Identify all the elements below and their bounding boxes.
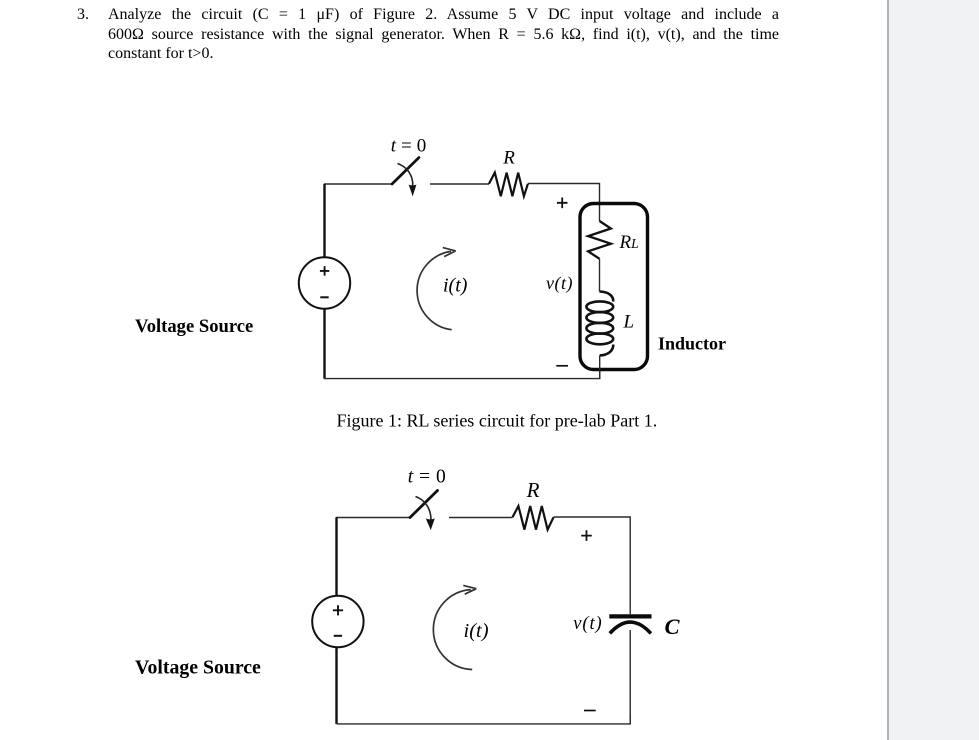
polarity minus label (fig1): [556, 365, 568, 367]
svg-text:Voltage Source: Voltage Source: [135, 316, 253, 337]
wire RL to coil: [599, 259, 601, 292]
paragraph item number: [77, 5, 89, 25]
caption Figure 1: [337, 410, 658, 430]
voltage source V1: [299, 257, 350, 308]
wire left vertical lower (fig2): [335, 647, 337, 724]
label Voltage Source (fig1): [135, 316, 253, 337]
label R (fig1): [502, 148, 515, 169]
label RL: [619, 232, 639, 253]
paragraph text: [108, 5, 779, 64]
switch S2 closing arc: [416, 497, 431, 522]
label t = 0 (fig1): [391, 136, 427, 157]
svg-text:v(t): v(t): [546, 273, 573, 294]
wire top-left horizontal (fig1): [325, 184, 393, 185]
wire top-left horizontal (fig2): [337, 518, 411, 520]
resistor RL: [588, 221, 611, 259]
resistor R (fig2): [513, 506, 554, 530]
switch S2 arrowhead: [426, 518, 435, 530]
label v(t) (fig2): [573, 614, 602, 634]
svg-text:R: R: [502, 148, 515, 169]
current loop arrow i(t) (fig2): [433, 585, 476, 669]
wire left vertical upper (fig2): [335, 518, 337, 598]
label L: [623, 312, 635, 333]
label Inductor: [658, 334, 726, 354]
capacitor C top plate: [609, 614, 651, 618]
label C: [665, 614, 681, 639]
wire left vertical lower (fig1): [323, 309, 325, 379]
polarity + label (fig1): [557, 198, 568, 209]
svg-text:t = 0: t = 0: [408, 467, 446, 488]
label R (fig2): [526, 478, 540, 502]
wire switch to resistor (fig1): [430, 183, 489, 185]
svg-text:Figure 1: RL series circuit fo: Figure 1: RL series circuit for pre-lab …: [337, 410, 658, 430]
svg-text:R: R: [526, 478, 540, 502]
wire resistor to right corner (fig2): [554, 517, 631, 614]
svg-text:L: L: [623, 312, 635, 333]
svg-text:Voltage Source: Voltage Source: [135, 657, 261, 679]
right gray panel: [887, 0, 979, 740]
wire bottom horizontal (fig2): [337, 714, 631, 724]
wire coil to bottom (fig1): [599, 355, 601, 378]
inductor enclosure box: [580, 204, 648, 370]
label t = 0 (fig2): [408, 467, 446, 488]
inductor L coil: [586, 292, 613, 356]
switch S2 lever: [410, 491, 438, 518]
wire capacitor to bottom (fig2): [629, 630, 631, 724]
voltage source V2: [312, 596, 363, 647]
label v(t) (fig1): [546, 273, 573, 294]
svg-text:v(t): v(t): [573, 614, 602, 634]
label i(t) (fig2): [464, 620, 489, 642]
svg-text:i(t): i(t): [443, 275, 468, 297]
label i(t) (fig1): [443, 275, 468, 297]
svg-text:C: C: [665, 614, 681, 639]
capacitor C bottom curved plate: [610, 622, 651, 633]
resistor R (fig1): [489, 173, 528, 197]
switch S1 closing arc: [398, 164, 413, 187]
label Voltage Source (fig2): [135, 657, 261, 679]
switch S1 lever: [392, 158, 419, 185]
svg-text:i(t): i(t): [464, 620, 489, 642]
polarity minus label (fig2): [584, 710, 596, 712]
svg-text:RL: RL: [619, 232, 639, 253]
wire left vertical upper (fig1): [323, 184, 325, 258]
wire resistor to right corner (fig1): [528, 184, 600, 222]
svg-text:Inductor: Inductor: [658, 334, 726, 354]
switch S1 arrowhead: [409, 184, 417, 196]
current loop arrow i(t) (fig1): [417, 248, 456, 330]
wire switch to resistor (fig2): [449, 517, 513, 519]
polarity + label (fig2): [581, 530, 592, 541]
svg-text:t = 0: t = 0: [391, 136, 427, 157]
wire bottom horizontal (fig1): [325, 369, 600, 379]
